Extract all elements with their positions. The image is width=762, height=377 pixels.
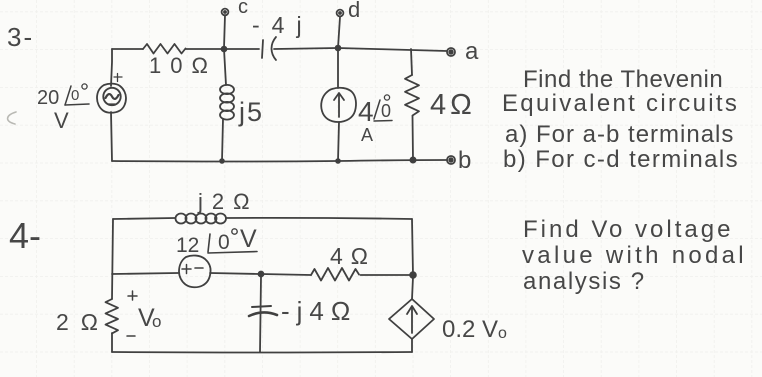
value label j2Ω of L2: [197, 189, 259, 214]
svg-text:b: b: [458, 147, 471, 174]
wire: V1 bottom to bottom wire: [111, 112, 112, 161]
svg-text:A: A: [361, 125, 373, 145]
node label a: [465, 38, 479, 65]
svg-text:-4j: -4j: [252, 12, 314, 38]
svg-text:d: d: [348, 0, 360, 22]
left vertical wire of problem 4: [112, 219, 113, 299]
wire: dependent source to bottom wire: [411, 339, 413, 352]
wire: right junction down to dependent source: [412, 277, 413, 299]
label Vo: [138, 304, 161, 332]
angle slash, degree and underline of I1 value: [374, 95, 392, 121]
resistor R3 2Ω: [106, 299, 119, 333]
svg-text:Equivalent circuits: Equivalent circuits: [502, 90, 739, 117]
wire: node d to terminal a: [338, 48, 447, 51]
svg-text:0.2 V: 0.2 V: [442, 316, 498, 343]
wire: node d junction down to current source I1: [337, 48, 339, 88]
dependent current source 0.2Vo (diamond): [389, 299, 434, 339]
terminal a: [447, 48, 455, 56]
top wire of problem 4 (left part): [113, 218, 175, 219]
wire: node c junction down to inductor L1: [224, 49, 226, 85]
svg-text:0: 0: [71, 87, 79, 104]
junction dot at right node: [410, 272, 416, 278]
inductor L1 j5: [220, 85, 234, 120]
svg-text:value with nodal: value with nodal: [522, 242, 747, 269]
svg-text:0: 0: [381, 101, 391, 121]
wire: L1 down to bottom wire: [222, 119, 223, 161]
svg-text:10Ω: 10Ω: [149, 53, 217, 78]
top wire of problem 4 (right part): [226, 218, 412, 219]
wire: V2 to capacitor junction: [210, 273, 260, 274]
node label c: [238, 0, 248, 18]
resistor R1 10Ω: [143, 44, 186, 54]
svg-text:4Ω: 4Ω: [330, 243, 376, 269]
value label j5 of L1: [238, 97, 264, 127]
svg-text:o: o: [498, 325, 507, 342]
current source I1 4∠0° A: [321, 88, 356, 122]
svg-text:12: 12: [176, 234, 199, 257]
terminal c: [222, 9, 229, 16]
stray pencil mark at left edge: [8, 112, 16, 124]
minus mark of Vo: [127, 335, 135, 337]
plus mark of Vo: [128, 291, 137, 300]
node d junction dot: [336, 46, 341, 51]
svg-text:analysis ?: analysis ?: [523, 268, 646, 295]
angle slash, degree and underline of V2 value: [208, 229, 257, 253]
capacitor C1 -4j: [262, 37, 276, 60]
voltage source V1 20∠0°: [97, 84, 126, 113]
wire: I1 down to bottom wire: [338, 122, 339, 161]
svg-text:20: 20: [37, 87, 59, 109]
svg-text:-j4Ω: -j4Ω: [281, 296, 357, 326]
value label 4∠0° A of I1: [358, 96, 391, 145]
value label 2Ω of R3: [56, 309, 110, 335]
value label 4Ω of R4: [330, 243, 376, 269]
resistor R4 4Ω: [311, 268, 359, 281]
svg-text:Find the Thevenin: Find the Thevenin: [523, 66, 723, 93]
value label -j4Ω of C2: [281, 296, 357, 326]
bottom wire of problem 4: [112, 351, 412, 354]
terminal d: [337, 10, 344, 17]
junction dot at I1 bottom: [336, 159, 340, 163]
svg-text:V: V: [240, 225, 257, 253]
angle slash, degree and underline of V1 value: [65, 84, 89, 105]
svg-text:o: o: [152, 312, 161, 331]
svg-text:4Ω: 4Ω: [430, 89, 476, 121]
svg-text:V: V: [54, 108, 69, 133]
svg-text:4: 4: [358, 96, 374, 127]
svg-text:j5: j5: [238, 97, 264, 127]
node c junction dot: [222, 47, 227, 52]
junction dot at L1 bottom: [220, 159, 224, 163]
value label 0.2 Vo of dependent source: [442, 316, 507, 343]
problem number 4 label: [9, 215, 41, 256]
svg-text:b) For c-d terminals: b) For c-d terminals: [503, 146, 739, 173]
resistor R2 4Ω: [405, 75, 419, 116]
wire: V1 top to top-left corner: [111, 49, 112, 86]
svg-text:4-: 4-: [9, 215, 41, 256]
plus sign of V1: [114, 74, 122, 82]
svg-text:0: 0: [218, 231, 230, 254]
value label 10Ω of R1: [149, 53, 217, 78]
junction dot at capacitor branch: [259, 272, 264, 277]
terminal b: [447, 156, 455, 164]
svg-text:a: a: [465, 38, 479, 65]
value label 4Ω of R2: [430, 89, 476, 121]
value label -4j of C1: [252, 12, 314, 38]
value label 12∠0°V of V2: [176, 225, 257, 257]
inductor L2 j2Ω: [176, 214, 227, 224]
wire: R3 to bottom-left corner: [111, 333, 113, 352]
capacitor C2 -j4Ω: [249, 306, 277, 316]
svg-text:Find Vo voltage: Find Vo voltage: [523, 216, 733, 243]
junction dot at R2 bottom: [410, 157, 415, 162]
svg-text:2Ω: 2Ω: [56, 309, 110, 335]
wire: C1 to node d junction: [274, 48, 338, 49]
wire: top wire down to resistor R2: [411, 49, 412, 75]
svg-text:c: c: [238, 0, 248, 18]
node label b: [458, 147, 471, 174]
wire: R1 to node c junction: [186, 48, 225, 50]
wire: capacitor junction down through C2 to bottom wire: [260, 277, 261, 352]
wire: R4 to right junction: [361, 274, 411, 276]
wire: R2 down to bottom wire: [412, 116, 415, 160]
wire: stub up to terminal c: [224, 15, 225, 48]
problem 3 task text: [502, 66, 739, 173]
wire: node c to capacitor C1: [224, 48, 259, 50]
svg-text:3-: 3-: [7, 22, 34, 52]
node label d: [348, 0, 360, 22]
wire: junction to resistor R4: [261, 274, 311, 275]
right vertical wire down to middle node: [412, 219, 413, 275]
svg-text:a) For a-b terminals: a) For a-b terminals: [505, 121, 734, 148]
problem number 3 label: [7, 22, 34, 52]
value label 20∠0° V of V1: [37, 87, 79, 133]
voltage source V2 12∠0°V: [179, 255, 211, 287]
problem 4 task text: [522, 216, 747, 295]
middle wire: left vertical to voltage source V2: [112, 273, 178, 274]
bottom wire of problem 3: [112, 160, 447, 162]
wire: stub up to terminal d: [338, 17, 340, 48]
wire: top-left corner to resistor R1: [112, 48, 143, 50]
svg-text:j2Ω: j2Ω: [197, 189, 259, 214]
